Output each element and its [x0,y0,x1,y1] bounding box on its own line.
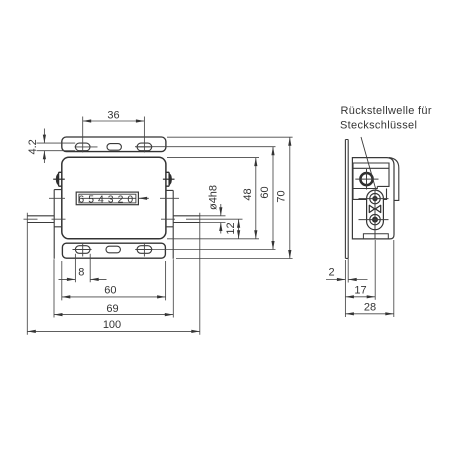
bottom-right slot cross lines [136,243,153,257]
svg-text:69: 69 [106,303,118,315]
dimension 60 bottom [62,261,166,300]
counting shaft cross lines [359,219,389,221]
counter window outer [76,192,138,205]
top tab slot middle [107,144,121,151]
reset shaft cross lines [355,169,378,190]
bottom tab slot left [75,246,90,254]
reset shaft circle [360,173,372,185]
left shaft [27,216,54,223]
top-right slot cross lines [136,146,153,148]
top-left slot cross lines [75,146,98,148]
svg-text:28: 28 [364,302,376,314]
side view case outline [352,158,394,239]
svg-text:60: 60 [104,285,116,297]
dimension 36 [83,117,145,153]
counter digits [78,194,133,205]
svg-text:70: 70 [276,190,288,202]
bottom tab slot middle [106,246,120,253]
svg-text:2: 2 [328,267,334,279]
right side strip [166,190,173,258]
right shaft centerline [161,218,243,220]
bottom mounting tab [62,243,165,258]
counter shaft cross lines [359,198,389,200]
dimension 8 [59,254,107,282]
svg-text:Steckschlüssel: Steckschlüssel [340,119,417,131]
body centerline dashes [49,197,179,199]
counter leader arrow [139,197,149,199]
svg-text:60: 60 [259,186,271,198]
svg-text:4.2: 4.2 [27,139,39,154]
side view inner frame around reset shaft [353,163,389,199]
dimension ø4h8 [200,204,226,234]
dimension 28 [345,240,393,317]
svg-text:100: 100 [103,319,121,331]
dimension 17 [345,240,375,300]
left side strip [54,190,62,259]
body outline [62,157,166,239]
dimension 48 [167,158,259,239]
drive bowtie [369,205,374,212]
label leader line [361,137,376,190]
capsule boss [367,190,384,230]
side view bottom step [363,234,388,239]
counter window inner [79,194,136,203]
svg-text:17: 17 [354,285,366,297]
svg-text:36: 36 [107,109,119,121]
dimension 70 [167,137,293,258]
top tab slot right [137,143,152,151]
svg-text:4: 4 [98,194,104,205]
bottom-left slot cross lines [73,243,92,257]
svg-text:Rückstellwelle für: Rückstellwelle für [341,105,432,117]
svg-text:5: 5 [88,194,94,205]
right shaft [173,216,200,223]
svg-text:3: 3 [108,194,114,205]
svg-text:6: 6 [78,194,84,205]
side vertical centerline [374,190,376,239]
svg-text:8: 8 [78,267,84,279]
right screw [163,172,175,186]
svg-text:12: 12 [225,222,237,234]
dimension 100 [27,213,200,335]
dimension 4.2 [37,129,76,164]
counter strike line [81,197,137,199]
left screw [53,172,65,186]
counter shaft circle [370,193,380,203]
dimension 12 [167,219,259,239]
dimension 69 [54,259,173,317]
side view back cover [389,158,399,201]
top tab slot left [75,143,90,151]
counting shaft circle [370,214,380,224]
svg-text:48: 48 [242,188,254,200]
side view bracket plate [345,140,348,259]
dimension 60 right [135,147,276,250]
bottom tab slot right [137,246,152,254]
dimension 2 [326,259,368,318]
svg-text:ø4h8: ø4h8 [207,185,219,210]
svg-text:2: 2 [118,194,124,205]
top mounting tab [62,137,166,152]
svg-text:0: 0 [127,194,133,205]
left shaft centerline [24,218,66,220]
